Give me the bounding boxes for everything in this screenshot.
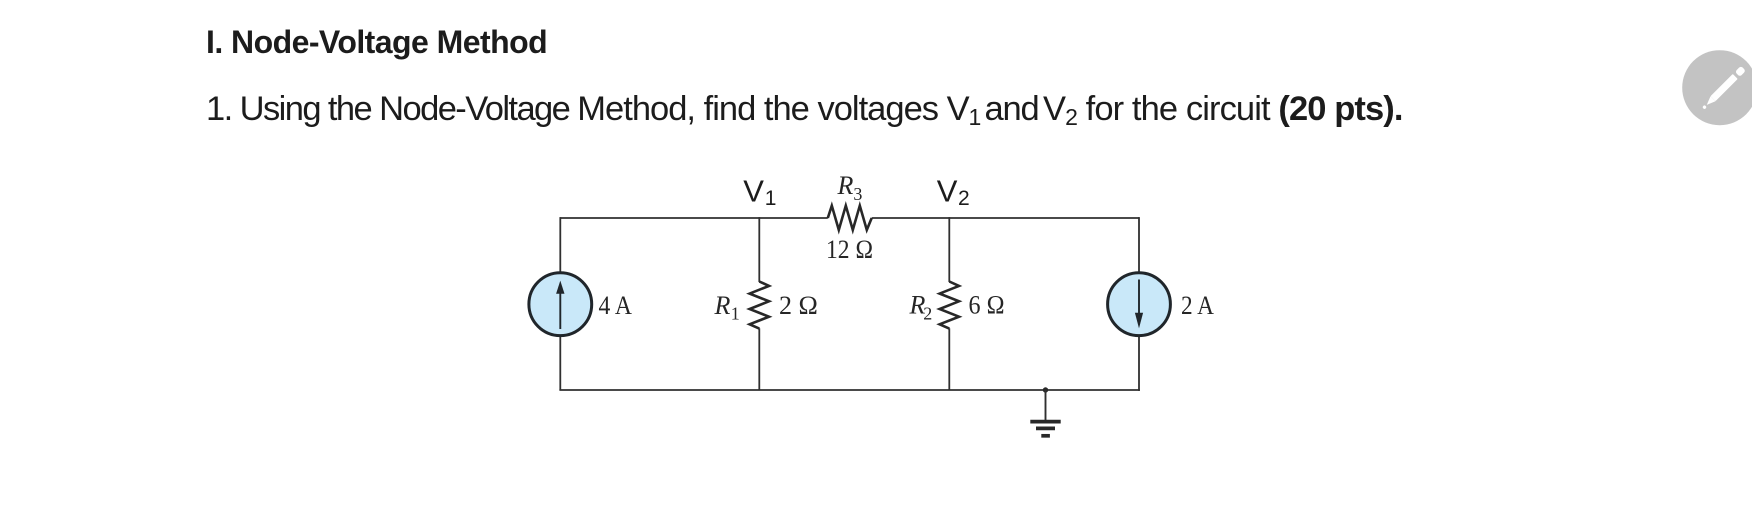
wire: top rail left of R3 [560,217,828,219]
resistor R3 zigzag [828,206,872,230]
svg-text:6 Ω: 6 Ω [969,291,1005,320]
wire: node V1 branch lower stub [758,328,760,390]
heading: I. Node-Voltage Method [206,26,547,58]
svg-text:2 A: 2 A [1181,291,1214,320]
current source I2 arrow [1138,280,1140,314]
svg-text:V: V [937,174,958,209]
ground bar 1 [1030,420,1060,424]
svg-text:1: 1 [731,304,740,324]
current source I2 circle (2 A) [1108,273,1171,336]
node V2 label [937,174,970,211]
svg-text:V: V [743,174,764,209]
node V1 label [743,174,776,211]
resistor R1 zigzag [750,282,769,329]
svg-text:2: 2 [923,303,932,323]
ground bar 2 [1036,427,1055,431]
wire: right branch lower segment [1138,336,1140,391]
junction node dot [1043,387,1048,392]
label R1 [714,291,740,324]
svg-text:R: R [714,291,731,320]
wire: left branch lower segment [559,336,561,390]
svg-text:2: 2 [958,187,970,210]
svg-text:12 Ω: 12 Ω [826,235,873,264]
wire: node V2 branch upper stub [948,217,950,282]
wire: node V2 branch lower stub [948,328,950,390]
wire: top rail right of R3 [872,217,1139,219]
wire: right branch upper segment [1138,217,1140,272]
wire: bottom rail [559,389,1140,391]
wire: node V1 branch upper stub [758,217,760,282]
label R2 [909,291,933,324]
svg-text:2 Ω: 2 Ω [779,291,818,320]
current source I1 circle (4 A) [529,273,592,336]
ground stub wire [1045,390,1047,420]
ground bar 3 [1041,434,1050,438]
svg-text:4 A: 4 A [599,291,633,320]
resistor R2 zigzag [940,282,959,329]
current source I1 arrow [559,293,561,330]
svg-text:1: 1 [765,187,777,210]
wire: left branch upper segment [559,217,561,272]
svg-text:3: 3 [853,184,862,204]
edit pencil badge [1682,50,1752,125]
label R3 [837,171,863,204]
svg-text:R: R [837,171,854,200]
problem statement line [206,92,1403,127]
